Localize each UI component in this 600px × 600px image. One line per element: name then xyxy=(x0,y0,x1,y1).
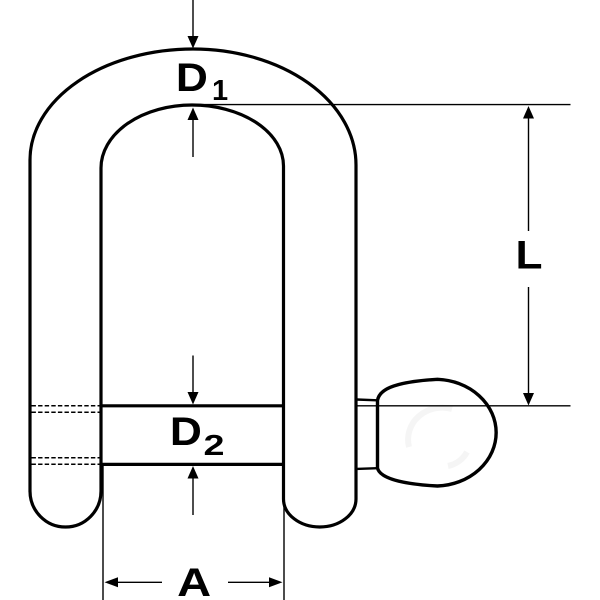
svg-text:D: D xyxy=(176,56,208,100)
svg-text:1: 1 xyxy=(212,75,228,107)
svg-text:D: D xyxy=(170,410,202,454)
svg-text:A: A xyxy=(177,561,211,600)
svg-text:L: L xyxy=(516,234,543,278)
svg-text:2: 2 xyxy=(204,430,225,462)
